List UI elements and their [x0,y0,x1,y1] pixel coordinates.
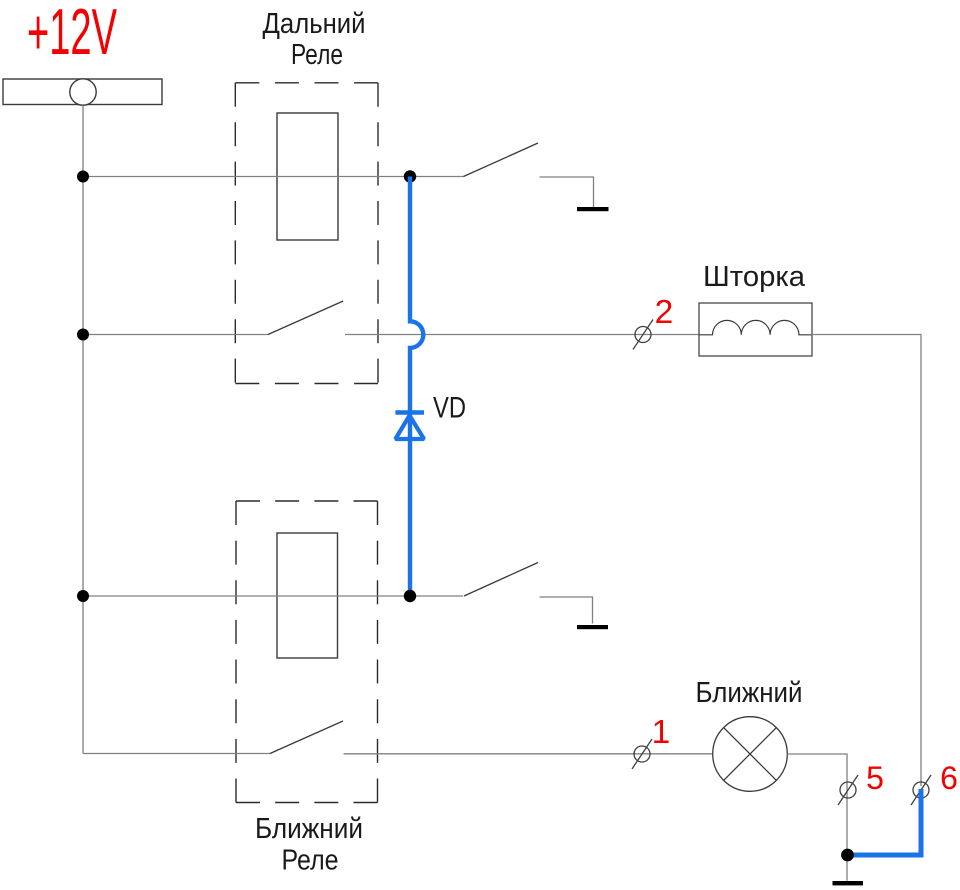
svg-text:Ближний: Ближний [255,813,363,845]
node: top row / blue wire junction [404,170,416,182]
connector pin 6 [911,775,931,805]
switch S2 fixed contact lead [540,597,593,624]
svg-text:1: 1 [652,714,671,751]
wire: middle row y=334 from contact to curtain box [345,334,699,336]
relay K1 contact blade [268,301,343,335]
relay K1 label "Дальний Реле" [263,8,366,71]
lamp (low beam) [713,717,788,792]
node: bus / middle row junction [77,329,89,341]
svg-text:Реле: Реле [282,845,339,877]
relay K1 dashed outline [235,83,378,384]
wire: middle row y=334 from bus to K1 contact [83,334,268,336]
ground G1 [577,207,609,211]
node: pin5 branch / blue wire junction [841,849,854,862]
relay K2 coil [277,533,338,658]
curtain inductor winding [699,320,812,334]
switch S1 blade [464,143,539,177]
curtain motor box [699,303,812,356]
ground G3 [833,881,864,885]
relay K2 dashed outline [236,501,378,803]
svg-text:6: 6 [940,760,958,796]
svg-text:Дальний: Дальний [263,8,366,40]
diode VD cathode bar [395,410,424,415]
svg-text:+12V: +12V [27,0,117,68]
wire: curtain box to right bus, down to pin 6 [811,335,921,787]
switch S2 blade [464,563,538,597]
switch S1 fixed contact lead [540,177,594,207]
wire: bottom row y=753.5 from bus to K2 contact [83,753,270,755]
ground G2 [577,625,608,629]
relay K1 coil [277,113,338,240]
relay K2 contact blade [270,721,343,754]
relay K2 label "Ближний Реле" [255,813,363,877]
svg-text:Ближний: Ближний [696,677,803,709]
svg-text:Шторка: Шторка [703,261,806,293]
connector pin 1 [632,739,652,769]
blue wire W1 with hop over middle row [410,177,423,597]
fuse F1 circle [70,79,96,105]
connector pin 2 [633,320,653,350]
connector pin 5 [838,775,858,805]
wire: +12V left bus (vertical) [82,106,84,754]
blue wire W2 from pin 6 to ground node [850,789,922,855]
node: bus / third row junction [77,590,89,602]
svg-text:2: 2 [655,294,674,331]
wire: lamp to pin 5 branch [787,754,847,881]
fuse F1 body [3,79,162,105]
node: bus / top row junction [77,171,89,183]
node: third row / blue wire junction [404,590,416,602]
svg-text:Реле: Реле [291,39,343,71]
wire: top row y=176 from bus through coil K1 to switch [83,176,464,178]
svg-text:5: 5 [866,760,884,796]
wire: third row y=596 from bus through coil K2 [83,595,463,597]
svg-text:VD: VD [433,392,466,425]
wire: bottom row from contact to lamp [344,753,713,755]
diode VD anode triangle [395,416,424,440]
